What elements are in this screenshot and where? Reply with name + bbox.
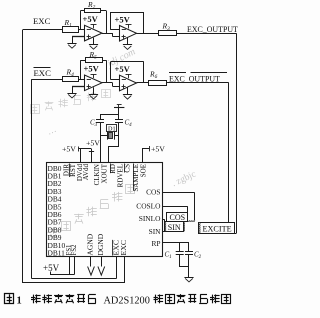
pin RD	[109, 164, 117, 174]
node /EXC (row-2 input label, overline)	[34, 68, 52, 79]
wire U2 unity feedback loop	[111, 12, 144, 33]
svg-text:AGND: AGND	[86, 233, 95, 255]
power +5V (SOE pull-up)	[142, 145, 165, 162]
AD2S1200 IC body	[47, 163, 163, 257]
pin DB11	[48, 249, 66, 258]
pin AVdd	[82, 164, 90, 181]
resistor R5 (U3 feedback)	[86, 50, 103, 63]
ground at U3 + input	[67, 94, 76, 98]
ground below U3	[89, 95, 98, 99]
pin DB4	[48, 195, 62, 204]
pin FS1 (bottom)	[66, 245, 73, 256]
wire U2 output to R3	[137, 33, 160, 35]
svg-text:DGND: DGND	[96, 233, 105, 255]
wire SIN pin to SIN winding	[163, 231, 165, 233]
pin DGND (bottom)	[96, 233, 105, 255]
svg-text:EXC_OUTPUT: EXC_OUTPUT	[169, 74, 220, 83]
wire +5V to AVdd pin (power bar)	[89, 149, 94, 162]
svg-text:D1: D1	[108, 126, 116, 133]
wire U1 negative supply	[93, 38, 95, 45]
svg-text:DB11: DB11	[48, 249, 66, 258]
wire RP pin to C1/C2	[163, 242, 190, 244]
COS winding box	[167, 213, 188, 222]
pin DB10	[48, 241, 66, 250]
wire U1 feedback left branch	[81, 11, 85, 30]
svg-text:+5V: +5V	[151, 145, 165, 154]
pin DB9	[48, 233, 62, 242]
wire U4 output to R6	[137, 82, 149, 84]
op-amp U4 (buffer)	[120, 74, 137, 91]
wire U2 negative supply	[127, 38, 129, 45]
svg-text:RP: RP	[151, 239, 160, 248]
pin CS	[123, 164, 131, 173]
wire U4 negative supply	[127, 88, 129, 95]
svg-text:SIN: SIN	[149, 227, 162, 236]
svg-text:XOUT: XOUT	[101, 163, 109, 183]
capacitor C3	[90, 119, 104, 128]
resistor R4	[63, 67, 79, 81]
wire CLKIN branch (to crystal / C3)	[100, 115, 119, 163]
power +5V (DVdd/AVdd supply)	[62, 144, 92, 153]
op-amp U3 +5V supply label	[84, 64, 100, 74]
wire U1 output to U2 input	[102, 33, 120, 36]
wire C1/C2 common to ground	[180, 267, 189, 278]
svg-text:EXCITE: EXCITE	[203, 225, 232, 234]
pin RST	[69, 163, 77, 177]
svg-text:+5V: +5V	[43, 263, 60, 273]
svg-text:EXC: EXC	[34, 68, 52, 78]
pin DIR	[62, 164, 70, 176]
wire +5V to DVdd pin	[80, 149, 82, 162]
capacitor C4	[115, 119, 132, 128]
svg-text:EXC_OUTPUT: EXC_OUTPUT	[187, 25, 238, 34]
resistor R6	[149, 70, 167, 86]
wire U3 feedback right branch	[102, 60, 107, 83]
wire EXC_OUTPUT to resolver EXCITE winding (right side)	[177, 33, 237, 233]
wire COS pin to COS winding	[163, 193, 195, 221]
svg-text:SINLO: SINLO	[139, 214, 161, 223]
ground DGND	[98, 267, 105, 276]
wire U1 feedback right branch	[101, 11, 107, 34]
wire XOUT branch (to crystal / C4)	[108, 115, 119, 162]
wire FS2 pin to +5V	[74, 257, 76, 275]
pin SIN	[149, 227, 162, 236]
wire /EXC pin stub	[116, 257, 118, 279]
node /EXC_OUTPUT label (overline)	[169, 73, 227, 84]
svg-text:FS2: FS2	[71, 244, 78, 256]
ground at U1 + input	[67, 44, 76, 49]
capacitor C2	[185, 243, 202, 267]
pin DB5	[48, 202, 62, 211]
ground below U2	[123, 45, 132, 50]
op-amp U1	[85, 24, 103, 41]
power +5V (above AVdd)	[86, 138, 100, 147]
wire U1 non-inverting input to ground	[72, 37, 85, 44]
node EXC (row-1 input label)	[33, 16, 51, 26]
svg-text:EXC: EXC	[119, 240, 128, 256]
svg-text:1: 1	[17, 296, 22, 307]
wire EXC return (outer loop, from AD2S1200 EXC pin)	[23, 30, 125, 284]
wire U3 non-inverting input to ground	[72, 87, 85, 94]
svg-text:SOE: SOE	[139, 164, 147, 177]
crystal D1	[100, 125, 119, 140]
pin AGND (bottom)	[86, 233, 95, 255]
caption: fig.1 resolver and AD2S1200 interface schematic	[5, 294, 231, 307]
wire AGND pin	[90, 257, 92, 267]
wire R1 to op-amp U1 inverting input	[78, 29, 85, 31]
wire /EXC input (row 2)	[32, 79, 63, 81]
ground (top of crystal caps)	[114, 105, 124, 116]
wire U3 output to U4 input	[102, 83, 120, 87]
pin COS	[146, 188, 160, 197]
op-amp U2 +5V supply label	[115, 14, 131, 24]
svg-text:COSLO: COSLO	[136, 201, 161, 210]
ground below U4	[123, 95, 132, 100]
coil (COS winding tail)	[188, 220, 195, 221]
pin DB3	[48, 187, 62, 196]
ground below C1/C2	[184, 278, 193, 282]
pin FS2 (bottom)	[71, 244, 78, 256]
wire U4 unity feedback loop	[111, 62, 144, 83]
pin RP	[151, 239, 160, 248]
pin DB0	[48, 164, 62, 173]
wire FS1 pin to +5V	[69, 257, 71, 275]
pin DB6	[48, 210, 62, 219]
wire EXC input (row 1)	[23, 29, 62, 31]
capacitor C1	[165, 243, 184, 267]
op-amp U1 +5V supply label	[83, 14, 99, 24]
SIN winding box	[165, 222, 185, 233]
wire R4 to op-amp U3 inverting input	[78, 79, 85, 81]
wire /EXC return (inner loop, from AD2S1200 /EXC pin)	[32, 79, 117, 278]
pin SAMPLE	[132, 164, 140, 192]
svg-text:COS: COS	[170, 213, 186, 222]
svg-text:COS: COS	[146, 188, 160, 197]
svg-text:+5V: +5V	[115, 64, 131, 74]
pin DB1	[48, 172, 62, 181]
op-amp U2 (buffer)	[120, 25, 137, 42]
pin DB2	[48, 179, 62, 188]
svg-text:+5V: +5V	[115, 14, 131, 24]
svg-text:AVdd: AVdd	[82, 164, 90, 181]
wire DGND pin	[101, 257, 103, 267]
op-amp U3	[85, 74, 103, 91]
wire /EXC_OUTPUT to resolver EXCITE winding	[166, 83, 229, 223]
pin DB8	[48, 225, 62, 234]
svg-text:+5V: +5V	[86, 138, 100, 147]
svg-text:SIN: SIN	[168, 223, 181, 232]
node EXC_OUTPUT label	[187, 25, 238, 34]
EXCITE winding box	[199, 223, 235, 234]
ground AGND	[88, 267, 95, 276]
svg-text:+5V: +5V	[84, 64, 100, 74]
pin CLKIN	[93, 164, 101, 185]
wire U3 negative supply	[93, 87, 95, 94]
pin EXC (bottom)	[111, 240, 120, 256]
pin SOE	[139, 164, 147, 177]
svg-text:AD2S1200: AD2S1200	[104, 296, 150, 307]
wire EXC pin stub	[124, 257, 126, 283]
resistor R2 (U1 feedback)	[85, 0, 101, 13]
resistor R3	[159, 22, 177, 36]
svg-text:+5V: +5V	[83, 14, 99, 24]
pin SINLO	[139, 214, 161, 223]
svg-text:EXC: EXC	[33, 16, 51, 26]
power +5V (FS1/FS2)	[43, 263, 74, 275]
pin DVdd	[76, 164, 84, 182]
pin RDVEL	[116, 164, 124, 187]
resistor R1	[63, 18, 79, 33]
pin DB7	[48, 218, 62, 227]
op-amp U4 +5V supply label	[115, 64, 131, 74]
ground below U1	[89, 45, 98, 50]
wire U3 feedback left branch	[81, 60, 86, 79]
wire SINLO pin to SIN winding	[163, 220, 165, 223]
wire COSLO pin to COS winding	[163, 206, 188, 212]
svg-text:+5V: +5V	[62, 144, 76, 153]
pin COSLO	[136, 201, 161, 210]
pin XOUT	[101, 163, 109, 183]
pin EXC (bottom)	[119, 240, 128, 256]
